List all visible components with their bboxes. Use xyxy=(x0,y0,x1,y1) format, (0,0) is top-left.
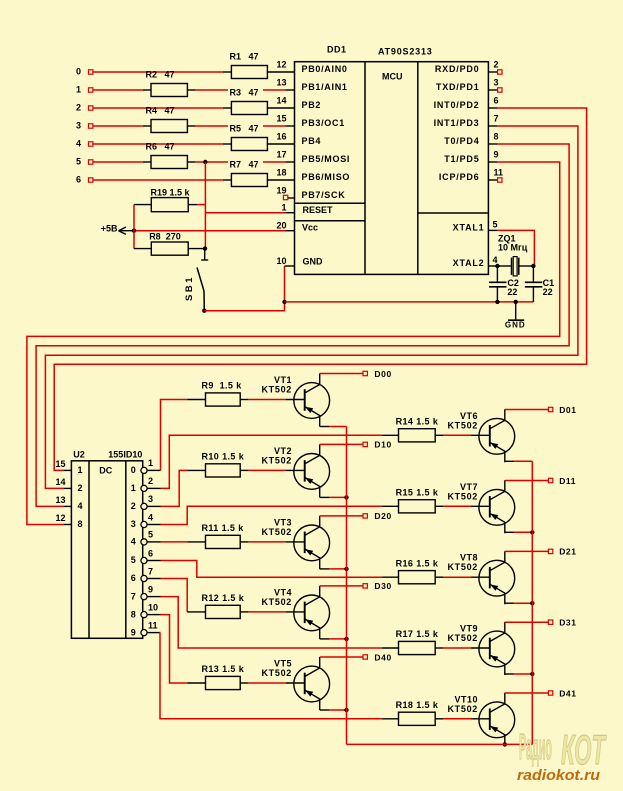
wire GND rail to crystal xyxy=(285,301,534,303)
transistor VT1 xyxy=(261,374,329,427)
wire out1 xyxy=(161,435,383,488)
wire xyxy=(240,399,286,401)
wire out6 xyxy=(161,579,188,612)
wire out2 xyxy=(161,470,188,506)
svg-text:VT9: VT9 xyxy=(460,624,478,634)
node input 5 xyxy=(76,157,93,167)
wire PD3 to decoder xyxy=(45,126,578,488)
node input 6 xyxy=(76,175,93,185)
crystal ZQ1 xyxy=(497,234,533,276)
decoder output 6 xyxy=(131,566,161,583)
svg-text:PB7/SCK: PB7/SCK xyxy=(302,190,346,200)
pin label RXD/PD0 xyxy=(435,64,480,74)
pin label PB4 xyxy=(302,136,322,146)
svg-text:17: 17 xyxy=(276,150,286,160)
svg-text:9: 9 xyxy=(494,150,499,160)
svg-text:22: 22 xyxy=(543,287,553,297)
pin number 15 xyxy=(55,459,65,469)
svg-text:KT502: KT502 xyxy=(447,562,478,572)
node junction XTAL2 xyxy=(495,264,499,268)
pin number 18 xyxy=(276,168,286,178)
svg-text:R18 1.5 k: R18 1.5 k xyxy=(396,700,439,710)
pin number 13 xyxy=(55,495,65,505)
svg-text:R19 1.5 k: R19 1.5 k xyxy=(151,188,191,198)
wire out3 xyxy=(161,506,383,524)
svg-text:PB2: PB2 xyxy=(302,100,322,110)
svg-text:3: 3 xyxy=(148,494,153,504)
node junction C2 bottom xyxy=(495,300,499,304)
wire xyxy=(382,718,471,720)
svg-text:PB6/MISO: PB6/MISO xyxy=(302,172,351,182)
decoder output 2 xyxy=(131,494,161,511)
wire emitter VT8 xyxy=(505,602,533,604)
pin number 7 xyxy=(494,114,499,124)
node junction PB5-RESET xyxy=(203,160,207,164)
wire collector VT9 xyxy=(505,621,548,623)
node D31 xyxy=(548,618,576,628)
pin number 1 xyxy=(281,203,286,213)
svg-text:T0/PD4: T0/PD4 xyxy=(444,136,479,146)
pin label XTAL1 xyxy=(453,223,485,233)
wire RESET xyxy=(205,212,294,214)
wire xyxy=(488,71,497,73)
svg-text:6: 6 xyxy=(76,175,81,185)
svg-text:RXD/PD0: RXD/PD0 xyxy=(435,64,480,74)
pin number 12 xyxy=(276,60,286,70)
svg-text:14: 14 xyxy=(55,477,65,487)
svg-text:KT502: KT502 xyxy=(261,527,292,537)
svg-text:155ID10: 155ID10 xyxy=(108,450,142,460)
svg-text:6: 6 xyxy=(494,96,499,106)
wire xyxy=(93,179,231,181)
node junction GND net xyxy=(282,300,286,304)
node D11 xyxy=(548,476,576,486)
pin ICP terminal xyxy=(498,178,502,182)
pin label 4 xyxy=(78,501,83,511)
wire PD5 to decoder xyxy=(27,162,560,525)
wire collector VT10 xyxy=(505,692,548,694)
wire xyxy=(187,682,205,684)
wire collector VT8 xyxy=(505,550,548,552)
pin number 20 xyxy=(276,221,286,231)
svg-text:VT5: VT5 xyxy=(274,659,292,669)
svg-text:KT502: KT502 xyxy=(447,491,478,501)
resistor R5 xyxy=(228,123,267,150)
resistor R11 xyxy=(202,523,245,548)
resistor R12 xyxy=(202,593,245,618)
value label DC xyxy=(99,465,112,475)
wire xyxy=(240,541,286,543)
node D01 xyxy=(548,405,576,415)
wire out0 xyxy=(161,400,188,471)
svg-text:PB5/MOSI: PB5/MOSI xyxy=(302,154,351,164)
svg-text:KT502: KT502 xyxy=(447,633,478,643)
svg-text:SB1: SB1 xyxy=(184,275,195,301)
wire left emitter bus xyxy=(346,427,348,745)
svg-text:AT90S2313: AT90S2313 xyxy=(378,47,433,57)
wire emitter VT1 xyxy=(320,426,347,428)
wire xyxy=(382,576,471,578)
svg-text:7: 7 xyxy=(131,591,136,601)
wire bottom emitter rail xyxy=(347,743,533,745)
svg-text:11: 11 xyxy=(494,168,504,178)
wire xyxy=(187,161,294,163)
svg-text:3: 3 xyxy=(494,78,499,88)
pin label INT1/PD3 xyxy=(434,118,480,128)
decoder output 1 xyxy=(131,476,161,493)
svg-text:KT502: KT502 xyxy=(261,455,292,465)
svg-text:8: 8 xyxy=(78,519,83,529)
pin RXD terminal xyxy=(498,70,502,74)
logo radiokot xyxy=(517,726,607,784)
wire collector VT2 xyxy=(320,443,363,445)
svg-text:XTAL2: XTAL2 xyxy=(453,258,485,268)
node junction emitter bus xyxy=(530,672,534,676)
node junction GND tap xyxy=(514,300,518,304)
svg-text:13: 13 xyxy=(55,495,65,505)
svg-text:ICP/PD6: ICP/PD6 xyxy=(439,172,480,182)
svg-text:12: 12 xyxy=(55,513,65,523)
svg-text:D30: D30 xyxy=(374,581,391,591)
svg-text:D31: D31 xyxy=(559,618,576,628)
wire emitter VT9 xyxy=(505,673,533,675)
svg-text:VT2: VT2 xyxy=(274,446,292,456)
svg-text:2: 2 xyxy=(494,60,499,70)
decoder output 9 xyxy=(131,620,161,637)
wire xyxy=(488,161,497,163)
wire xyxy=(187,541,205,543)
wire collector VT6 xyxy=(505,409,548,411)
resistor R17 xyxy=(396,629,439,654)
svg-text:radiokot.ru: radiokot.ru xyxy=(517,767,600,784)
svg-text:D40: D40 xyxy=(374,652,391,662)
svg-text:6: 6 xyxy=(131,573,136,583)
value label DD1 xyxy=(327,45,347,55)
svg-text:1: 1 xyxy=(131,483,136,493)
svg-text:GND: GND xyxy=(505,320,526,329)
svg-text:VT3: VT3 xyxy=(274,517,292,527)
wire emitter VT7 xyxy=(505,531,533,533)
svg-text:10 Мгц: 10 Мгц xyxy=(498,242,528,252)
wire collector VT1 xyxy=(320,373,363,375)
node junction +5V xyxy=(132,229,136,233)
decoder output 0 xyxy=(131,458,161,475)
wire collector VT7 xyxy=(505,480,548,482)
decoder output 5 xyxy=(131,548,161,565)
resistor R4 xyxy=(146,106,188,133)
node D21 xyxy=(548,547,576,557)
capacitor C2 xyxy=(489,266,519,302)
resistor R13 xyxy=(202,664,245,689)
svg-text:4: 4 xyxy=(148,512,153,522)
svg-text:9: 9 xyxy=(131,627,136,637)
value label MCU xyxy=(382,72,403,82)
svg-text:R1 47: R1 47 xyxy=(230,52,259,62)
power +5V xyxy=(101,223,134,234)
svg-text:2: 2 xyxy=(131,501,136,511)
svg-text:14: 14 xyxy=(276,96,286,106)
svg-text:PB0/AIN0: PB0/AIN0 xyxy=(302,64,348,74)
pin number 6 xyxy=(494,96,499,106)
svg-text:4: 4 xyxy=(76,139,81,149)
wire xyxy=(93,89,151,91)
pin number 13 xyxy=(276,78,286,88)
svg-text:DC: DC xyxy=(99,465,112,475)
node junction emitter bus xyxy=(344,495,348,499)
node input 2 xyxy=(76,103,93,113)
wire Vcc feed xyxy=(134,230,295,232)
svg-text:INT0/PD2: INT0/PD2 xyxy=(434,100,480,110)
pin label GND xyxy=(303,256,324,266)
transistor VT9 xyxy=(447,622,514,675)
svg-text:15: 15 xyxy=(276,114,286,124)
resistor R15 xyxy=(396,488,439,513)
wire xyxy=(187,89,294,91)
wire xyxy=(240,682,286,684)
node junction R8 xyxy=(203,246,207,250)
node D41 xyxy=(548,688,576,698)
svg-text:VT4: VT4 xyxy=(274,587,292,597)
node D10 xyxy=(363,440,392,450)
wire out9 xyxy=(160,633,382,719)
svg-text:10: 10 xyxy=(148,602,158,612)
svg-text:VT1: VT1 xyxy=(274,375,292,385)
svg-text:R17 1.5 k: R17 1.5 k xyxy=(396,629,439,639)
wire xyxy=(188,248,205,250)
svg-text:1: 1 xyxy=(148,458,153,468)
svg-text:KT502: KT502 xyxy=(261,385,292,395)
pin number 4 xyxy=(493,255,498,265)
svg-text:R5 47: R5 47 xyxy=(230,124,259,134)
pin label INT0/PD2 xyxy=(434,100,480,110)
pin number 3 xyxy=(494,78,499,88)
value label 155ID10 xyxy=(108,450,142,460)
svg-text:R8 270: R8 270 xyxy=(149,231,181,241)
wire xyxy=(93,107,231,109)
svg-text:R10 1.5 k: R10 1.5 k xyxy=(202,452,245,462)
svg-text:7: 7 xyxy=(494,114,499,124)
svg-text:D21: D21 xyxy=(559,547,576,557)
wire xyxy=(267,143,294,145)
pin number 14 xyxy=(55,477,65,487)
wire emitter VT10 xyxy=(504,743,506,745)
wire emitter VT3 xyxy=(320,568,347,570)
resistor R18 xyxy=(396,700,439,725)
svg-text:VT7: VT7 xyxy=(460,482,478,492)
node junction crystal right xyxy=(531,264,535,268)
svg-text:D20: D20 xyxy=(374,511,391,521)
svg-text:R6 47: R6 47 xyxy=(146,142,175,152)
resistor R7 xyxy=(228,159,267,186)
wire out4 xyxy=(161,541,188,543)
svg-text:KT502: KT502 xyxy=(261,597,292,607)
svg-text:U2: U2 xyxy=(73,450,85,460)
pin TXD terminal xyxy=(498,88,502,92)
pin PB7/SCK terminal xyxy=(283,195,294,199)
wire xyxy=(187,469,205,471)
svg-text:D11: D11 xyxy=(559,476,576,486)
node input 0 xyxy=(76,67,93,77)
svg-text:R9 1.5 k: R9 1.5 k xyxy=(202,381,243,391)
svg-text:T1/PD5: T1/PD5 xyxy=(444,154,479,164)
svg-text:3: 3 xyxy=(131,519,136,529)
pin label PB3/OC1 xyxy=(302,118,345,128)
pin number 16 xyxy=(276,132,286,142)
wire XTAL2 stub xyxy=(488,265,497,267)
node input 4 xyxy=(76,139,93,149)
wire xyxy=(93,143,231,145)
wire xyxy=(488,179,497,181)
op-amp U2 decoder box xyxy=(71,461,142,639)
svg-text:КОТ: КОТ xyxy=(561,726,607,773)
pin label Vcc xyxy=(302,222,318,232)
transistor VT10 xyxy=(447,693,514,746)
pin number 9 xyxy=(494,150,499,160)
wire out8 xyxy=(161,615,188,683)
pin label 8 xyxy=(78,519,83,529)
pin number 17 xyxy=(276,150,286,160)
wire xyxy=(134,205,151,231)
resistor R19 xyxy=(151,188,191,212)
node D30 xyxy=(363,581,392,591)
node junction VT10 emitter xyxy=(503,742,507,746)
wire collector VT3 xyxy=(320,515,363,517)
svg-text:5: 5 xyxy=(76,157,81,167)
svg-text:1: 1 xyxy=(281,203,286,213)
wire xyxy=(240,469,286,471)
pin label XTAL2 xyxy=(453,258,485,268)
node junction emitter bus xyxy=(530,601,534,605)
svg-text:1: 1 xyxy=(78,465,83,475)
wire xyxy=(267,179,294,181)
svg-text:R3 47: R3 47 xyxy=(230,88,259,98)
svg-text:7: 7 xyxy=(148,566,153,576)
resistor R14 xyxy=(396,417,439,442)
svg-text:VT10: VT10 xyxy=(454,694,478,704)
value label U2 xyxy=(73,450,85,460)
svg-text:4: 4 xyxy=(493,255,498,265)
svg-text:D10: D10 xyxy=(374,440,391,450)
svg-text:Vcc: Vcc xyxy=(302,222,318,232)
wire XTAL1 to crystal xyxy=(488,230,534,266)
svg-text:1: 1 xyxy=(76,85,81,95)
pin number 19 xyxy=(276,186,286,196)
capacitor C1 xyxy=(525,266,554,302)
svg-text:4: 4 xyxy=(78,501,83,511)
wire xyxy=(93,125,151,127)
svg-text:D00: D00 xyxy=(374,369,391,379)
svg-text:R11 1.5 k: R11 1.5 k xyxy=(202,523,245,533)
decoder output 7 xyxy=(131,584,161,601)
decoder output 4 xyxy=(131,530,161,547)
node junction emitter bus xyxy=(530,530,534,534)
svg-text:2: 2 xyxy=(76,103,81,113)
pin label PB0/AIN0 xyxy=(302,64,348,74)
pin label PB7/SCK xyxy=(302,190,346,200)
resistor R1 xyxy=(230,52,268,79)
svg-text:3: 3 xyxy=(76,121,81,131)
transistor VT6 xyxy=(447,409,514,462)
resistor R8 xyxy=(149,231,188,255)
wire emitter VT2 xyxy=(320,496,347,498)
svg-text:+5В: +5В xyxy=(101,223,118,233)
pin number 12 xyxy=(55,513,65,523)
svg-text:KT502: KT502 xyxy=(447,420,478,430)
pin label RESET xyxy=(303,205,334,215)
decoder output 3 xyxy=(131,512,161,529)
pin label TXD/PD1 xyxy=(436,82,480,92)
svg-text:PB3/OC1: PB3/OC1 xyxy=(302,118,345,128)
transistor VT8 xyxy=(447,551,514,604)
node junction emitter bus xyxy=(344,708,348,712)
wire xyxy=(188,204,205,206)
node junction emitter bus xyxy=(344,567,348,571)
svg-text:8: 8 xyxy=(131,609,136,619)
wire xyxy=(267,107,294,109)
svg-text:16: 16 xyxy=(276,132,286,142)
pin label PB1/AIN1 xyxy=(302,82,348,92)
pin label PB2 xyxy=(302,100,322,110)
svg-text:R15 1.5 k: R15 1.5 k xyxy=(396,488,439,498)
svg-text:18: 18 xyxy=(276,168,286,178)
svg-text:5: 5 xyxy=(131,555,136,565)
pin number 14 xyxy=(276,96,286,106)
svg-text:2: 2 xyxy=(148,476,153,486)
wire xyxy=(488,125,497,127)
svg-text:0: 0 xyxy=(76,67,81,77)
svg-text:PB1/AIN1: PB1/AIN1 xyxy=(302,82,348,92)
wire PD4 to decoder xyxy=(36,144,569,506)
switch SB1 xyxy=(184,249,208,313)
svg-text:R13 1.5 k: R13 1.5 k xyxy=(202,664,245,674)
resistor R2 xyxy=(146,70,188,97)
pin number 8 xyxy=(494,132,499,142)
resistor R10 xyxy=(202,452,245,477)
svg-text:R14 1.5 k: R14 1.5 k xyxy=(396,417,439,427)
node junction emitter bus xyxy=(344,637,348,641)
node D20 xyxy=(363,511,392,521)
svg-text:9: 9 xyxy=(148,584,153,594)
pin number 15 xyxy=(276,114,286,124)
svg-text:MCU: MCU xyxy=(382,72,403,82)
wire SB1 to GND pin xyxy=(204,266,294,311)
resistor R9 xyxy=(202,381,243,406)
pin number 5 xyxy=(493,220,498,230)
pin label PB5/MOSI xyxy=(302,154,351,164)
pin label 1 xyxy=(78,465,83,475)
wire right emitter bus xyxy=(531,461,533,744)
wire xyxy=(240,611,286,613)
transistor VT7 xyxy=(447,480,514,533)
svg-text:12: 12 xyxy=(276,60,286,70)
wire collector VT5 xyxy=(320,656,363,658)
wire emitter VT6 xyxy=(505,460,533,462)
svg-text:R4 47: R4 47 xyxy=(146,106,175,116)
svg-text:GND: GND xyxy=(303,256,324,266)
wire RESET net vertical xyxy=(204,162,206,249)
wire emitter VT4 xyxy=(320,638,347,640)
wire xyxy=(382,505,471,507)
transistor VT3 xyxy=(261,516,329,569)
pin number 10 xyxy=(276,256,286,266)
wire xyxy=(382,647,471,649)
resistor R6 xyxy=(146,142,188,169)
wire xyxy=(488,143,497,145)
wire emitter VT5 xyxy=(320,709,347,711)
svg-text:KT502: KT502 xyxy=(447,704,478,714)
svg-text:13: 13 xyxy=(276,78,286,88)
svg-text:D41: D41 xyxy=(559,688,576,698)
